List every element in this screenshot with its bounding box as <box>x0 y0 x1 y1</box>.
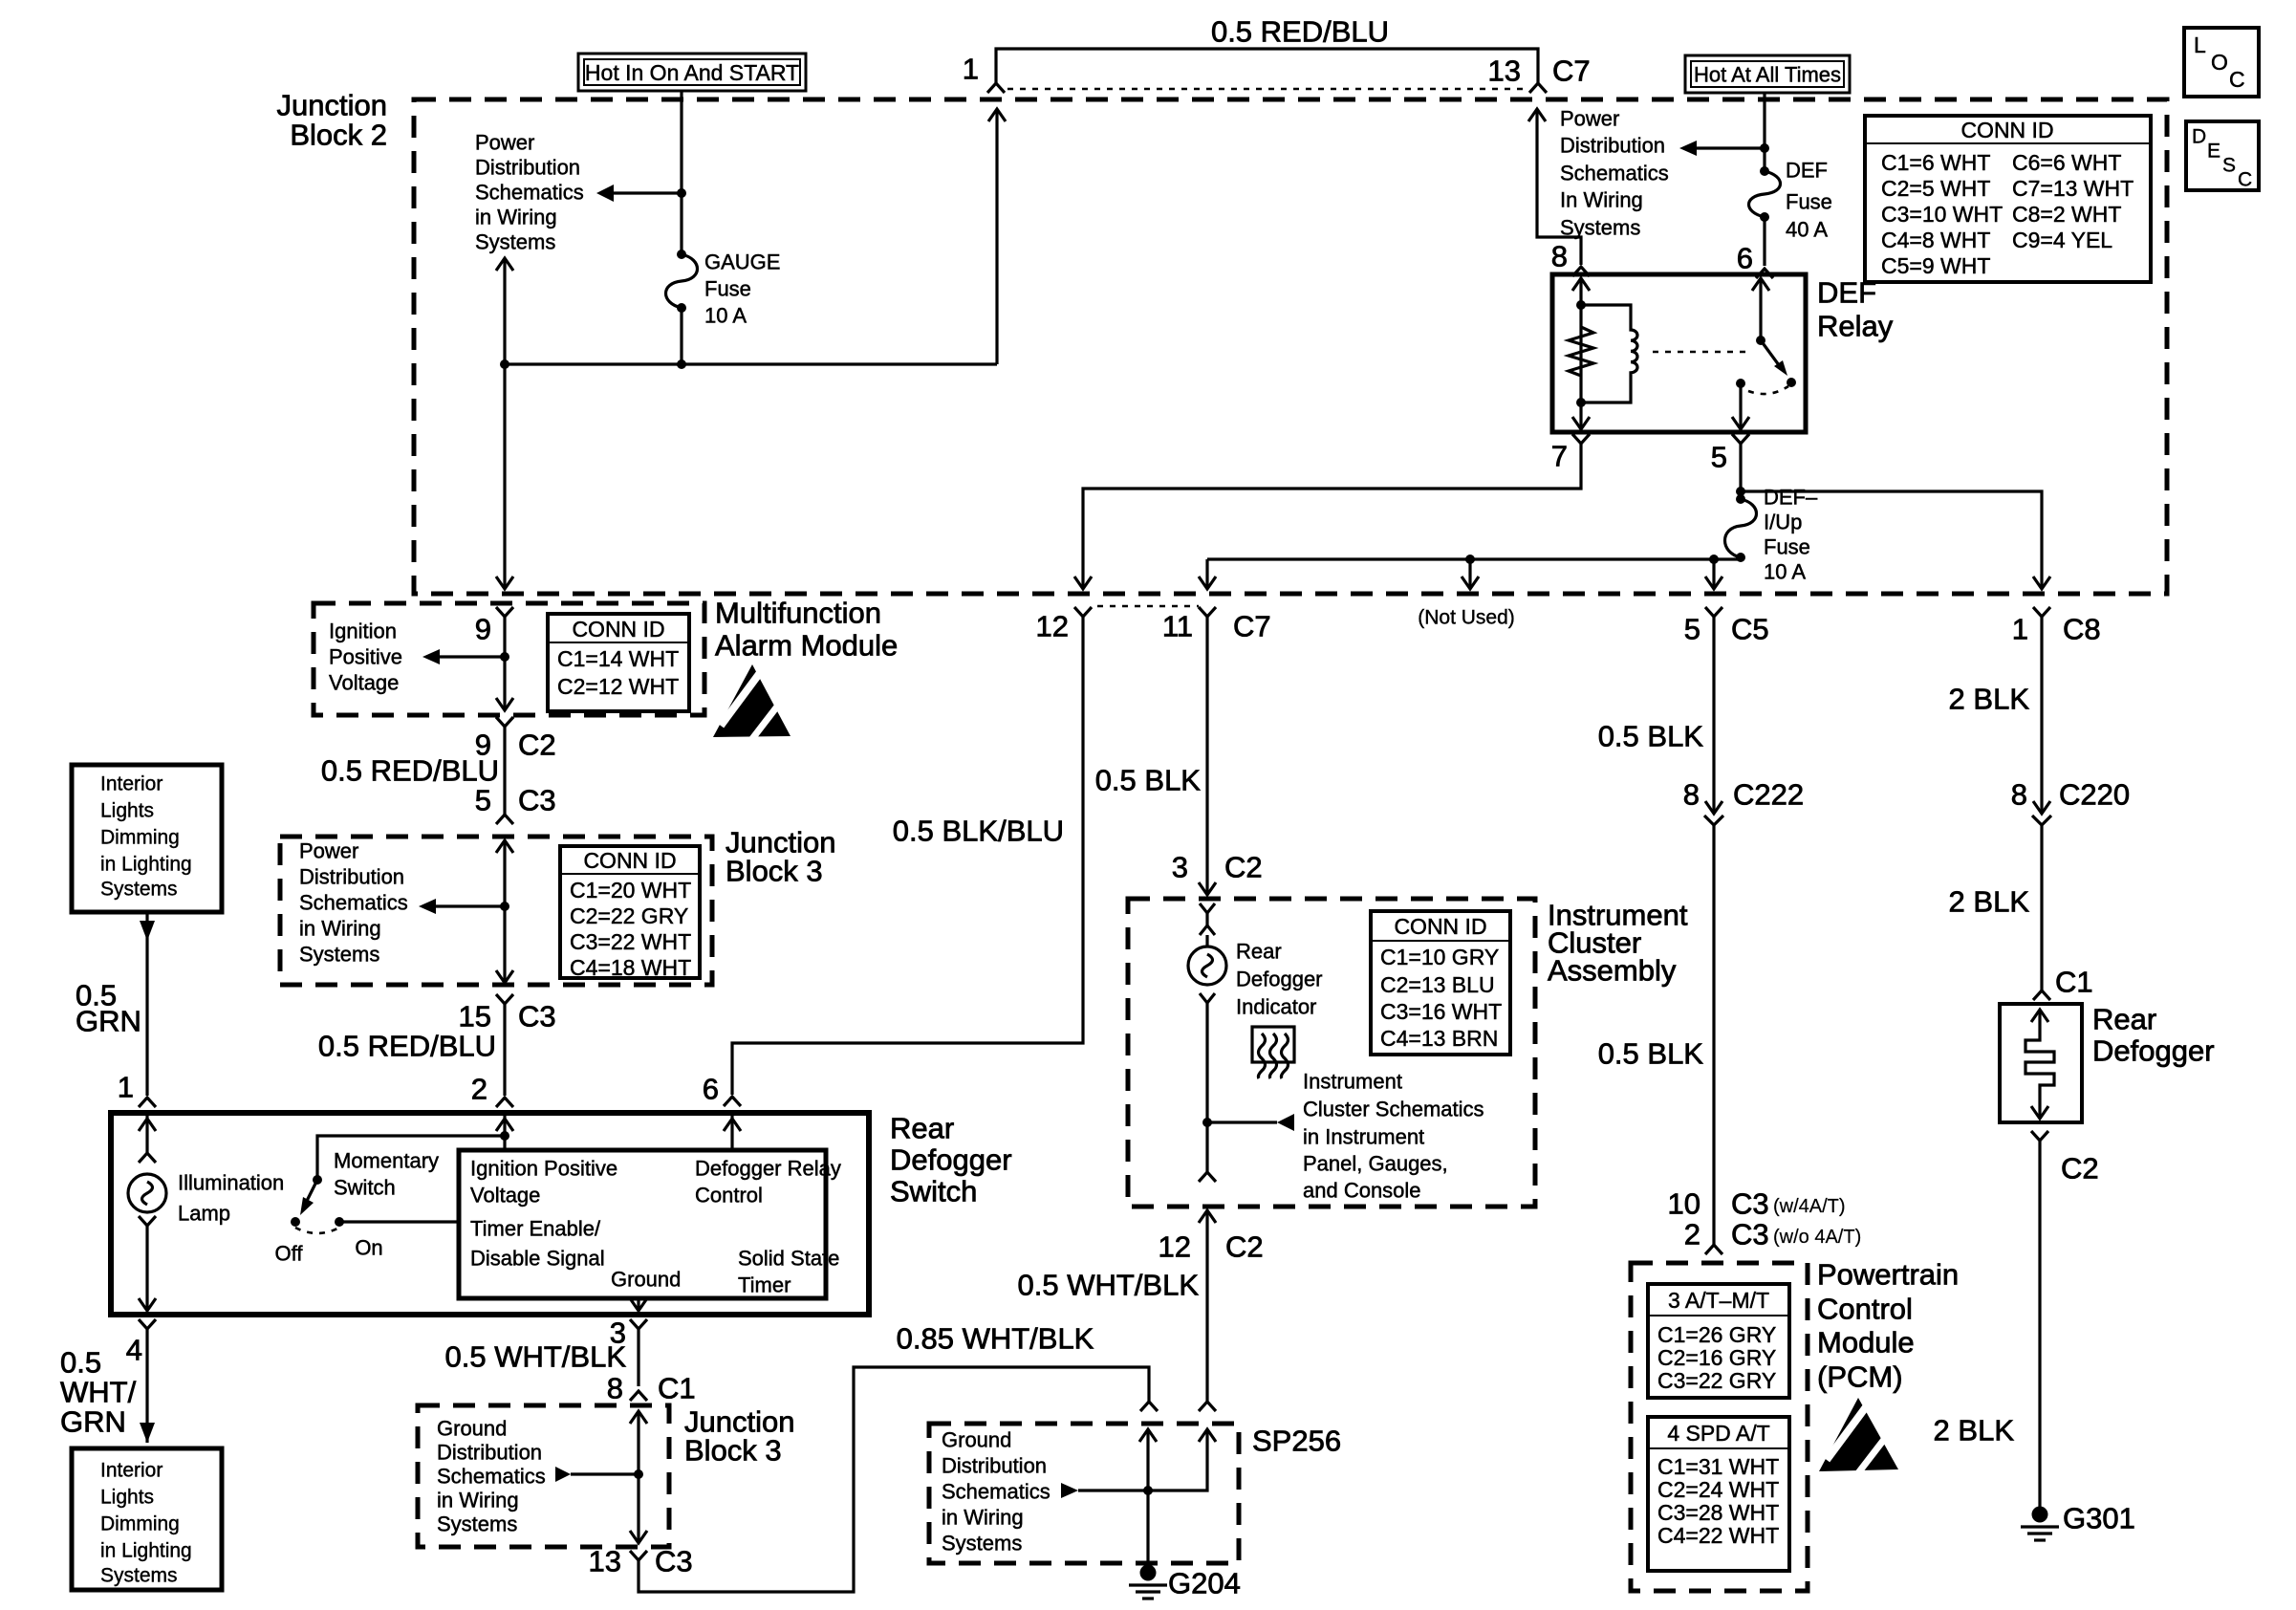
connector label C3 (w/4A/T) <box>1731 1187 1846 1221</box>
pin 12 C2 exit connector chevron <box>1199 1172 1216 1182</box>
lamp Rear Defogger Indicator <box>1188 946 1226 985</box>
svg-text:Ignition Positive: Ignition Positive <box>470 1157 617 1181</box>
svg-text:Ground: Ground <box>437 1417 507 1441</box>
svg-text:Indicator: Indicator <box>1236 995 1316 1019</box>
svg-text:C3: C3 <box>1731 1218 1769 1251</box>
svg-text:Schematics: Schematics <box>299 891 408 915</box>
svg-text:Fuse: Fuse <box>1786 190 1832 214</box>
svg-text:in Instrument: in Instrument <box>1303 1125 1424 1149</box>
svg-text:E: E <box>2207 141 2220 163</box>
svg-text:C222: C222 <box>1733 778 1804 812</box>
wire relay pin 8 to pin 13 C7 <box>1528 109 1581 265</box>
svg-text:Rear: Rear <box>1236 940 1282 964</box>
svg-text:S: S <box>2222 155 2236 177</box>
svg-text:Rear: Rear <box>2092 1003 2156 1036</box>
svg-text:40 A: 40 A <box>1786 218 1828 242</box>
svg-text:Voltage: Voltage <box>329 671 399 695</box>
wire pin 12 C2 to SP256 <box>1199 1210 1216 1402</box>
node label DEF Relay <box>1817 276 1894 343</box>
node Interior Lights Dimming in Lighting Systems top box <box>72 765 222 912</box>
svg-text:GRN: GRN <box>60 1405 126 1439</box>
svg-text:Block 3: Block 3 <box>684 1434 782 1468</box>
svg-text:Systems: Systems <box>475 230 555 254</box>
switch arm of relay <box>1761 340 1787 376</box>
svg-text:Ground: Ground <box>942 1428 1011 1452</box>
wire to ground distribution schematics pointer <box>1061 1483 1148 1498</box>
svg-text:0.5 BLK: 0.5 BLK <box>1095 764 1202 797</box>
solid state timer inner box <box>459 1150 826 1298</box>
pin 6 connector chevron <box>1756 269 1773 278</box>
svg-text:Lamp: Lamp <box>178 1202 230 1226</box>
defogger indicator icon <box>1252 1027 1294 1078</box>
wire 0.5 RED/BLU C2 to C3 <box>503 727 506 815</box>
svg-text:Defogger Relay: Defogger Relay <box>695 1157 841 1181</box>
wire ground leg out of timer box <box>630 1298 647 1311</box>
svg-text:On: On <box>355 1236 382 1260</box>
svg-text:Fuse: Fuse <box>1764 535 1810 559</box>
svg-text:13: 13 <box>589 1545 621 1578</box>
wire momentary switch feed from pin 2 <box>317 1136 505 1180</box>
wire lamp top lead <box>1205 935 1208 946</box>
svg-text:C1: C1 <box>658 1372 696 1405</box>
node label Solid State Timer <box>738 1247 839 1297</box>
wire below GAUGE fuse <box>680 308 682 364</box>
svg-text:0.5 BLK/BLU: 0.5 BLK/BLU <box>893 815 1064 848</box>
wire drop to not used pin <box>1462 559 1479 589</box>
fuse DEF-I/Up 10 A <box>1725 494 1757 562</box>
svg-text:D: D <box>2192 126 2206 148</box>
svg-text:C3=16 WHT: C3=16 WHT <box>1380 999 1502 1024</box>
junction coil top <box>1576 300 1586 310</box>
rear defogger C2 connector chevron <box>2031 1131 2048 1141</box>
module Powertrain Control Module dashed box <box>1631 1263 1808 1591</box>
wire to power distribution schematics pointer <box>596 185 682 202</box>
module Junction Block 3 power dashed box <box>280 837 712 985</box>
wire left leg into SP256 to ground <box>1139 1429 1157 1568</box>
svg-text:Ignition: Ignition <box>329 620 397 643</box>
svg-text:C3=22 GRY: C3=22 GRY <box>1657 1368 1776 1393</box>
wire dashed travel arc <box>295 1228 339 1233</box>
wire fuse to relay pin 6 <box>1763 217 1765 266</box>
svg-text:C5: C5 <box>1731 613 1769 646</box>
pin 5 connector chevron <box>1705 607 1722 617</box>
svg-text:GRN: GRN <box>76 1005 141 1038</box>
wire 0.85 WHT/BLK from pin 13 C3 to SP256 <box>639 1367 1149 1592</box>
wire relay coil left leg <box>1572 278 1590 429</box>
svg-text:0.5 RED/BLU: 0.5 RED/BLU <box>318 1030 496 1063</box>
svg-text:2 BLK: 2 BLK <box>1949 683 2030 716</box>
svg-text:C2: C2 <box>2061 1152 2099 1186</box>
svg-text:Lights: Lights <box>100 800 154 822</box>
PCM connector table 3 A/T-M/T <box>1648 1284 1789 1398</box>
node label Power Distribution Schematics in Wiring Systems <box>475 131 584 254</box>
svg-text:Dimming: Dimming <box>100 1513 180 1535</box>
svg-text:Timer Enable/: Timer Enable/ <box>470 1217 601 1241</box>
value label DEF-I/Up Fuse 10 A <box>1764 486 1818 584</box>
wire pin 9 branch with up arrow and down arrow <box>496 258 513 589</box>
wire from Hot In On And START down to GAUGE fuse <box>680 91 682 254</box>
svg-text:C4=18 WHT: C4=18 WHT <box>570 955 691 980</box>
svg-text:and Console: and Console <box>1303 1179 1421 1203</box>
svg-text:C1=20 WHT: C1=20 WHT <box>570 878 691 903</box>
svg-text:Interior: Interior <box>100 773 162 795</box>
pin 3 connector chevron <box>630 1319 647 1329</box>
connector label C3 (w/o 4A/T) <box>1731 1218 1861 1251</box>
node Hot At All Times <box>1685 55 1850 93</box>
svg-text:C: C <box>2238 169 2252 191</box>
node label Illumination Lamp <box>178 1171 284 1226</box>
pin 11 connector chevron <box>1199 607 1216 617</box>
module Junction Block 3 ground dashed box <box>418 1405 669 1547</box>
svg-text:5: 5 <box>1684 613 1700 646</box>
pin 1 connector chevron <box>987 83 1005 93</box>
svg-text:8: 8 <box>1683 778 1700 812</box>
pin 5 connector chevron <box>1732 434 1749 444</box>
svg-text:Fuse: Fuse <box>704 277 751 301</box>
svg-text:G301: G301 <box>2063 1502 2135 1535</box>
svg-text:6: 6 <box>703 1073 719 1106</box>
svg-text:C220: C220 <box>2059 778 2130 812</box>
junction pin 2 node <box>500 1131 509 1141</box>
wire dashed actuation link <box>1653 351 1752 354</box>
svg-text:in Wiring: in Wiring <box>437 1489 519 1512</box>
svg-text:C7: C7 <box>1233 610 1271 643</box>
svg-text:Schematics: Schematics <box>475 181 584 205</box>
pin 7 connector chevron <box>1572 434 1590 444</box>
svg-text:DEF–: DEF– <box>1764 486 1818 510</box>
junction at power distribution tap <box>1760 143 1769 153</box>
wire 0.5 WHT/BLK pin 3 to junction block 3 <box>637 1329 639 1386</box>
wire 0.5 WHT/GRN to interior lights dimming <box>140 1329 155 1443</box>
rear defogger C1 connector chevron <box>2033 990 2050 1000</box>
svg-text:(w/o 4A/T): (w/o 4A/T) <box>1773 1227 1861 1248</box>
svg-text:Schematics: Schematics <box>1560 162 1669 185</box>
junction at pin 9 drop <box>500 359 509 369</box>
wire horizontal bus to pin 9 drop and pin 1 riser <box>505 362 997 365</box>
wire to ground distribution schematics pointer <box>555 1467 639 1482</box>
wire 0.5 BLK pin 5 C5 down to C222 <box>1705 617 1722 814</box>
DESC reference box <box>2186 121 2259 191</box>
wire 0.5 BLK C222 to PCM <box>1712 825 1715 1245</box>
svg-text:C2=12 WHT: C2=12 WHT <box>557 674 679 699</box>
node label Rear Defogger Indicator <box>1236 940 1323 1019</box>
svg-text:CONN ID: CONN ID <box>572 617 664 642</box>
svg-text:Distribution: Distribution <box>475 156 580 180</box>
wire to ignition positive voltage pointer <box>422 649 505 664</box>
component Rear Defogger box <box>2000 1004 2082 1122</box>
wire dashed travel arc <box>1748 386 1788 394</box>
svg-text:C3=28 WHT: C3=28 WHT <box>1657 1500 1779 1525</box>
wire right leg into SP256 <box>1148 1429 1216 1490</box>
svg-text:C3: C3 <box>518 784 556 817</box>
svg-text:Hot At All Times: Hot At All Times <box>1694 63 1841 87</box>
svg-text:C4=22 WHT: C4=22 WHT <box>1657 1523 1779 1548</box>
svg-text:Schematics: Schematics <box>942 1480 1051 1504</box>
svg-text:C1: C1 <box>2055 966 2093 999</box>
wire switch output to relay pin 5 <box>1732 383 1749 429</box>
junction coil bottom <box>1576 398 1586 407</box>
junction at fuse output <box>677 359 686 369</box>
value label 0.5 GRN <box>76 979 141 1038</box>
svg-text:Cluster Schematics: Cluster Schematics <box>1303 1098 1484 1121</box>
svg-text:Rear: Rear <box>890 1112 954 1145</box>
CONN ID table for Multifunction Alarm Module <box>548 614 689 711</box>
svg-text:Defogger: Defogger <box>890 1143 1012 1177</box>
svg-text:15: 15 <box>459 1000 491 1033</box>
pin 13 connector chevron <box>630 1551 647 1560</box>
svg-text:C2: C2 <box>1224 851 1263 884</box>
svg-text:CONN ID: CONN ID <box>1960 118 2053 142</box>
pin 5 C3 connector chevron <box>496 815 513 824</box>
node label Junction Block 2 <box>277 89 387 152</box>
svg-text:Positive: Positive <box>329 645 402 669</box>
svg-text:13: 13 <box>1488 54 1521 88</box>
svg-text:Momentary: Momentary <box>334 1149 439 1173</box>
svg-text:Illumination: Illumination <box>178 1171 284 1195</box>
node label Instrument Cluster Schematics in Instrument Panel, Gauges, and Console <box>1303 1070 1484 1203</box>
svg-text:C1=10 GRY: C1=10 GRY <box>1380 945 1499 969</box>
SP256 entry connector chevron <box>1140 1402 1158 1411</box>
wire riser to pin 1 of junction block 2 <box>988 109 1006 364</box>
svg-text:4: 4 <box>126 1334 142 1367</box>
wire 2 BLK to ground G301 <box>2038 1141 2041 1507</box>
svg-text:C4=8 WHT: C4=8 WHT <box>1881 228 1990 252</box>
pin 2 connector chevron <box>496 1098 513 1107</box>
svg-text:in Wiring: in Wiring <box>299 917 381 941</box>
junction cluster schematics tap <box>1202 1118 1212 1127</box>
node switch output contact <box>1736 379 1745 388</box>
svg-text:in Wiring: in Wiring <box>475 206 557 229</box>
wire 2 BLK pin 1 C8 down to C220 <box>2033 617 2050 814</box>
node label Ignition Positive Voltage Timer Enable/Disable Signal <box>470 1157 617 1271</box>
svg-text:Block 3: Block 3 <box>726 855 823 888</box>
wire 0.5 RED/BLU from pin 1 to pin 13 C7 <box>996 49 1538 84</box>
wire lamp to pin 12 with schematics tap <box>1205 1003 1208 1172</box>
wire On contact to timer box <box>339 1220 459 1223</box>
svg-text:8: 8 <box>1551 240 1568 273</box>
svg-text:C8: C8 <box>2063 613 2101 646</box>
svg-text:Systems: Systems <box>100 879 178 901</box>
splice SP256 dashed box <box>929 1424 1239 1563</box>
svg-text:5: 5 <box>475 784 491 817</box>
wire 0.5 BLK/BLU pin 12 to rear defogger switch pin 6 <box>732 617 1083 1095</box>
svg-text:0.85 WHT/BLK: 0.85 WHT/BLK <box>897 1322 1094 1356</box>
SP256 entry connector chevron right <box>1199 1402 1216 1411</box>
value label 0.5 WHT/GRN <box>60 1346 137 1439</box>
wire to instrument cluster schematics pointer <box>1207 1114 1294 1131</box>
svg-text:C4=13 BRN: C4=13 BRN <box>1380 1026 1498 1051</box>
svg-text:Instrument: Instrument <box>1303 1070 1402 1094</box>
wire relay pin 5 down to DEF-I/Up fuse <box>1739 444 1742 499</box>
svg-text:Distribution: Distribution <box>1560 134 1665 158</box>
PCM connector table 4 SPD A/T <box>1648 1417 1789 1571</box>
pin 3 C2 connector chevrons <box>1200 903 1215 935</box>
node label Junction Block 3 <box>684 1405 794 1468</box>
svg-text:Systems: Systems <box>437 1512 517 1536</box>
svg-text:Systems: Systems <box>942 1532 1022 1556</box>
svg-text:1: 1 <box>963 53 979 86</box>
module Multifunction Alarm Module dashed box <box>314 603 704 715</box>
junction at power distribution tap <box>677 188 686 198</box>
svg-text:(w/4A/T): (w/4A/T) <box>1773 1196 1846 1217</box>
svg-text:8: 8 <box>607 1372 623 1405</box>
svg-text:Solid State: Solid State <box>738 1247 839 1271</box>
svg-text:2 BLK: 2 BLK <box>1934 1414 2015 1447</box>
svg-text:Control: Control <box>1817 1293 1913 1326</box>
svg-text:C1=26 GRY: C1=26 GRY <box>1657 1322 1776 1347</box>
svg-text:Panel, Gauges,: Panel, Gauges, <box>1303 1152 1448 1176</box>
svg-text:DEF: DEF <box>1786 159 1828 183</box>
fuse DEF 40 A <box>1749 166 1781 222</box>
node Hot In On And START <box>578 54 806 91</box>
svg-text:C8=2 WHT: C8=2 WHT <box>2012 202 2121 227</box>
svg-text:Power: Power <box>1560 107 1619 131</box>
svg-text:7: 7 <box>1551 440 1568 473</box>
svg-text:0.5 BLK: 0.5 BLK <box>1598 720 1704 753</box>
svg-text:0.5 BLK: 0.5 BLK <box>1598 1037 1704 1071</box>
svg-text:0.5 WHT/BLK: 0.5 WHT/BLK <box>1018 1269 1200 1302</box>
svg-text:0.5 RED/BLU: 0.5 RED/BLU <box>1211 15 1389 49</box>
node Off contact <box>291 1217 300 1227</box>
wire drop to pin 11 <box>1199 559 1216 589</box>
ground G301 <box>2021 1507 2059 1541</box>
svg-text:Defogger: Defogger <box>2092 1034 2215 1068</box>
wire through junction block 3 <box>496 840 513 983</box>
svg-text:C7: C7 <box>1552 54 1591 88</box>
svg-text:11: 11 <box>1162 610 1193 643</box>
svg-text:Powertrain: Powertrain <box>1817 1258 1959 1292</box>
svg-text:C3: C3 <box>518 1000 556 1033</box>
node Interior Lights Dimming in Lighting Systems bottom box <box>72 1448 222 1590</box>
ESD symbol for alarm module <box>713 664 791 740</box>
svg-text:C2=16 GRY: C2=16 GRY <box>1657 1345 1776 1370</box>
svg-text:C2: C2 <box>1225 1230 1264 1264</box>
junction pin 5 C5 drop <box>1709 555 1719 564</box>
node label Rear Defogger <box>2092 1003 2215 1068</box>
pin 4 connector chevron <box>139 1319 156 1329</box>
svg-text:I/Up: I/Up <box>1764 511 1802 534</box>
pin 8 connector chevron <box>1572 267 1590 276</box>
svg-text:O: O <box>2211 50 2228 75</box>
svg-text:Switch: Switch <box>890 1175 977 1208</box>
node label Momentary Switch <box>334 1149 439 1200</box>
svg-text:In Wiring: In Wiring <box>1560 188 1643 212</box>
node On contact <box>335 1217 344 1227</box>
svg-text:C2=13 BLU: C2=13 BLU <box>1380 972 1495 997</box>
svg-text:0.5 WHT/BLK: 0.5 WHT/BLK <box>445 1340 627 1374</box>
svg-text:3 A/T–M/T: 3 A/T–M/T <box>1668 1288 1769 1313</box>
svg-text:C1=14 WHT: C1=14 WHT <box>557 646 679 671</box>
module Rear Defogger Switch box <box>111 1113 869 1315</box>
svg-text:2 BLK: 2 BLK <box>1949 885 2030 919</box>
svg-text:in Lighting: in Lighting <box>100 854 192 876</box>
svg-text:0.5 RED/BLU: 0.5 RED/BLU <box>321 754 499 788</box>
node label Ground Distribution Schematics in Wiring Systems <box>942 1428 1051 1556</box>
svg-text:10 A: 10 A <box>704 304 747 328</box>
wire illumination lamp top leg <box>139 1113 156 1153</box>
svg-text:Assembly: Assembly <box>1548 954 1677 988</box>
svg-text:Defogger: Defogger <box>1236 968 1323 991</box>
svg-text:C6=6 WHT: C6=6 WHT <box>2012 150 2121 175</box>
node switch pivot <box>313 1175 322 1185</box>
svg-text:C2=24 WHT: C2=24 WHT <box>1657 1477 1779 1502</box>
node label Power Distribution Schematics in Wiring Systems <box>299 839 408 967</box>
svg-text:C9=4 YEL: C9=4 YEL <box>2012 228 2112 252</box>
svg-text:C3: C3 <box>655 1545 693 1578</box>
ground G204 <box>1129 1565 1167 1599</box>
wire to rear defogger indicator lamp <box>1205 913 1208 925</box>
ESD symbol for PCM <box>1819 1398 1898 1474</box>
wire 2 BLK C220 to rear defogger C1 <box>2040 825 2043 990</box>
wire relay switch common from pin 6 <box>1752 278 1769 340</box>
CONN ID table for Junction Block 2 <box>1865 116 2151 282</box>
svg-text:9: 9 <box>475 613 491 646</box>
svg-text:Voltage: Voltage <box>470 1184 540 1207</box>
svg-text:Systems: Systems <box>299 943 379 967</box>
switch arm momentary switch <box>300 1180 317 1215</box>
lamp Illumination Lamp <box>128 1174 166 1212</box>
wire illumination lamp bottom leg <box>139 1226 156 1311</box>
node label Junction Block 3 <box>726 826 835 888</box>
svg-text:L: L <box>2194 33 2206 57</box>
inductor L1 relay coil <box>1581 305 1637 402</box>
fuse GAUGE 10 A <box>666 250 698 313</box>
node label Rear Defogger Switch <box>890 1112 1012 1208</box>
wire 0.5 BLK pin 11 to instrument cluster pin 3 <box>1199 617 1216 895</box>
pin 13 connector chevron <box>1529 83 1547 93</box>
svg-text:Lights: Lights <box>100 1487 154 1509</box>
node label Ignition Positive Voltage <box>329 620 402 695</box>
svg-text:8: 8 <box>2011 778 2027 812</box>
svg-text:0.5: 0.5 <box>60 1346 101 1380</box>
svg-text:C3=10 WHT: C3=10 WHT <box>1881 202 2003 227</box>
svg-text:C7=13 WHT: C7=13 WHT <box>2012 176 2134 201</box>
svg-text:CONN ID: CONN ID <box>583 848 676 873</box>
LOC reference box <box>2184 28 2259 97</box>
wire from Hot At All Times down to DEF fuse <box>1763 93 1765 171</box>
svg-text:G204: G204 <box>1168 1567 1241 1600</box>
svg-text:1: 1 <box>118 1071 134 1104</box>
svg-text:Switch: Switch <box>334 1176 396 1200</box>
svg-text:Ground: Ground <box>611 1268 681 1292</box>
svg-text:Timer: Timer <box>738 1273 791 1297</box>
lamp bottom connector chevron <box>139 1216 156 1226</box>
svg-text:Dimming: Dimming <box>100 827 180 849</box>
svg-text:Alarm Module: Alarm Module <box>715 629 898 663</box>
svg-text:10: 10 <box>1668 1187 1700 1221</box>
svg-text:Hot In On And START: Hot In On And START <box>585 60 799 85</box>
PCM entry connector chevron <box>1705 1245 1722 1254</box>
wire pin 6 into timer box <box>724 1113 741 1150</box>
wire relay pin 7 to junction block 2 pin 12 <box>1074 444 1581 589</box>
svg-text:C2: C2 <box>518 729 556 762</box>
wire 0.5 RED/BLU to rear defogger switch pin 2 <box>503 1004 506 1096</box>
connector C220 chevron <box>2032 816 2051 825</box>
svg-text:Block 2: Block 2 <box>290 119 387 152</box>
svg-text:Relay: Relay <box>1817 310 1894 343</box>
wire bus below DEF-I/Up fuse <box>1207 557 1741 560</box>
pin 15 C3 connector chevron <box>496 994 513 1004</box>
junction ignition positive voltage tap <box>500 652 509 662</box>
node label Multifunction Alarm Module <box>715 597 898 663</box>
svg-text:3: 3 <box>1172 851 1188 884</box>
svg-text:Off: Off <box>275 1242 304 1266</box>
svg-text:Distribution: Distribution <box>942 1454 1047 1478</box>
heating element of rear defogger <box>2025 1010 2054 1119</box>
relay U1 DEF Relay box <box>1552 274 1806 432</box>
svg-text:12: 12 <box>1159 1230 1191 1264</box>
svg-text:2: 2 <box>471 1073 487 1106</box>
